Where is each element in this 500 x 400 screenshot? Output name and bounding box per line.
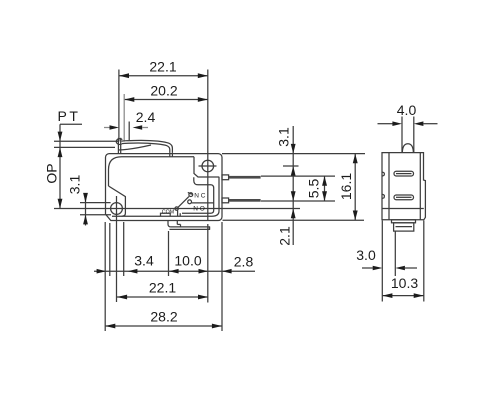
dimension 3.1 right	[276, 126, 299, 245]
terminal NC blade right	[222, 175, 261, 180]
contact NO	[188, 200, 214, 212]
body top extension line	[222, 153, 365, 155]
terminal extension lines	[261, 175, 335, 177]
common blade	[162, 196, 189, 216]
dimension 5.5	[306, 176, 328, 201]
svg-text:16.1: 16.1	[338, 173, 354, 200]
dimension PT arrows (pretravel)	[54, 132, 118, 158]
dimension 3.1 left (hole)	[67, 175, 112, 226]
svg-text:20.2: 20.2	[150, 83, 177, 99]
mounting hole top-right	[199, 152, 217, 221]
svg-text:2.8: 2.8	[234, 254, 254, 270]
svg-text:4.0: 4.0	[397, 102, 417, 118]
dimension 4.0	[378, 102, 438, 126]
svg-text:N O: N O	[193, 205, 205, 212]
dimension 2.1	[277, 191, 296, 245]
svg-text:22.1: 22.1	[149, 59, 176, 75]
lever arm	[116, 138, 172, 157]
dimension 16.1	[223, 154, 365, 221]
svg-text:2.1: 2.1	[277, 226, 293, 246]
svg-text:10.3: 10.3	[391, 275, 418, 291]
dimension 2.4	[104, 109, 155, 140]
svg-text:5.5: 5.5	[306, 179, 322, 199]
svg-text:3.4: 3.4	[134, 253, 154, 269]
end view bottom terminal	[392, 220, 416, 231]
label PT with bracket	[58, 108, 82, 209]
svg-text:22.1: 22.1	[149, 280, 176, 296]
svg-text:2.4: 2.4	[136, 109, 156, 125]
svg-text:3.0: 3.0	[356, 247, 376, 263]
end view slots	[394, 171, 414, 199]
end view body	[382, 153, 425, 220]
dimension 22.1 bottom	[117, 224, 208, 303]
terminal NO blade right	[222, 198, 261, 203]
svg-text:OP: OP	[44, 163, 60, 183]
contact NC	[188, 192, 206, 199]
svg-text:10.0: 10.0	[174, 253, 201, 269]
dimension 3.0	[356, 232, 417, 277]
internal contact pocket	[182, 177, 214, 213]
mounting hole bottom-left	[111, 196, 123, 302]
dimension 22.1 top	[119, 59, 208, 152]
svg-text:3.1: 3.1	[67, 175, 83, 195]
svg-text:28.2: 28.2	[150, 309, 177, 325]
dimension OP (operating position)	[44, 163, 301, 208]
dimension 10.3	[382, 221, 424, 302]
switch body outline	[106, 154, 223, 221]
dimension 28.2	[105, 222, 222, 331]
svg-text:N C: N C	[194, 192, 206, 199]
svg-text:3.1: 3.1	[276, 127, 292, 147]
body inner seam	[109, 157, 220, 217]
svg-text:COM: COM	[162, 210, 174, 216]
end view plunger	[402, 117, 414, 153]
dimension 20.2	[124, 83, 208, 142]
terminal COM bottom	[168, 221, 210, 230]
dimension chain 3.4 / 10.0 / 2.8	[94, 222, 255, 276]
svg-text:PT: PT	[58, 108, 81, 124]
